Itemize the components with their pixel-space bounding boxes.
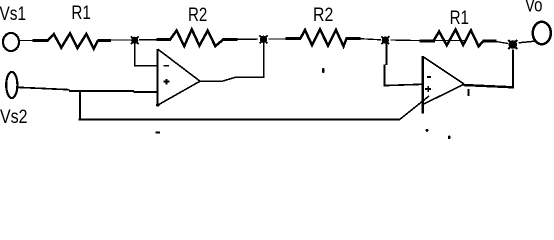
wire node D down to U2 output: [512, 50, 514, 89]
wire Vs1 to R1: [20, 39, 49, 41]
wire node C to R1 right: [391, 39, 436, 42]
wire node A down to op-amp U1 inverting input: [134, 44, 157, 66]
node C junction dot: [381, 36, 389, 44]
wire line through R1 right: [434, 40, 468, 42]
resistor R2 (first) zigzag: [170, 29, 223, 46]
resistor R2 (second) zigzag: [300, 29, 346, 46]
wire R1 to node A: [98, 39, 132, 42]
svg-text:R1: R1: [450, 7, 469, 29]
terminal Vs1 circle: [3, 33, 19, 51]
svg-text:Vo: Vo: [525, 0, 543, 17]
wire R1 right to node D: [483, 41, 509, 43]
tick below U2 output: [467, 89, 469, 96]
op-amp U2 minus sign: [427, 76, 431, 78]
node B junction dot: [260, 35, 268, 43]
terminal Vo circle: [533, 22, 551, 44]
svg-text:R2: R2: [188, 4, 207, 26]
wire R2 to node B: [223, 38, 259, 41]
resistor R1 (right) zigzag: [434, 30, 484, 47]
svg-text:Vs1: Vs1: [0, 3, 26, 25]
stray dot bottom right 2: [448, 135, 451, 139]
svg-text:R2: R2: [313, 4, 333, 26]
wire bottom rail: [79, 118, 400, 120]
wire node A to R2: [139, 38, 171, 40]
wire branch down to bottom rail: [79, 92, 81, 120]
stray minus below U1: [155, 131, 160, 133]
wire node B down to U1 output (feedback): [263, 43, 265, 78]
svg-text:R1: R1: [71, 2, 91, 24]
node A junction dot: [131, 36, 139, 44]
op-amp U2 plus sign: [425, 86, 431, 92]
wire op-amp U1 output: [200, 77, 265, 81]
wire node B to R2 second: [269, 38, 302, 40]
stray dot mid circuit: [322, 68, 325, 73]
wire R2 second to node C: [346, 39, 382, 40]
op-amp U2 triangle: [423, 56, 464, 114]
wire op-amp U2 output: [464, 85, 514, 87]
stray dot bottom right 1: [426, 129, 429, 132]
wire node C down to op-amp U2 input: [384, 44, 422, 87]
op-amp U1 triangle: [158, 49, 200, 107]
resistor R1 (left) zigzag: [48, 33, 99, 48]
svg-text:Vs2: Vs2: [0, 106, 28, 128]
terminal Vs2 ellipse: [6, 72, 17, 98]
op-amp U1 minus sign: [164, 65, 170, 67]
wire node D to Vo terminal: [519, 41, 535, 43]
wire Vs2 to op-amp U1 plus input: [18, 87, 158, 92]
op-amp U1 bottom vertex dot: [156, 103, 159, 106]
wire rail diagonal to op-amp U2: [399, 96, 429, 120]
node D junction dot: [508, 40, 517, 49]
op-amp U1 plus sign: [164, 79, 170, 85]
